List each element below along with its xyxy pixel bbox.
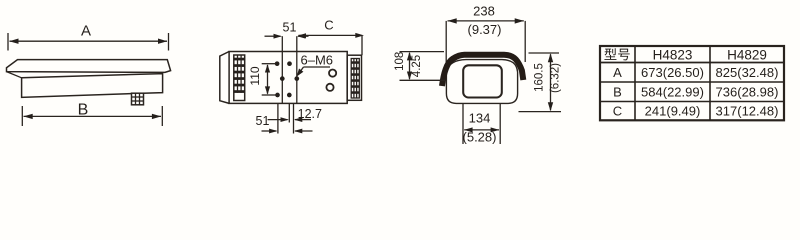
svg-text:4.25: 4.25 xyxy=(411,55,423,77)
svg-text:6–M6: 6–M6 xyxy=(301,53,334,68)
dim A line xyxy=(10,40,168,42)
dim 110 arrow up xyxy=(265,64,270,72)
lid front skirt line xyxy=(7,72,22,78)
body outline xyxy=(446,60,517,104)
dim C arrow left xyxy=(298,33,306,38)
svg-text:A: A xyxy=(81,23,91,40)
svg-text:238: 238 xyxy=(473,4,495,19)
dim 12.7 line left xyxy=(268,119,288,121)
hole circle 2 xyxy=(326,84,333,91)
dim A extension tick left xyxy=(7,33,9,51)
svg-text:B: B xyxy=(78,102,89,119)
svg-text:(6.32): (6.32) xyxy=(550,63,562,93)
dim 108 arrow up xyxy=(407,52,412,61)
dim B extension tick right xyxy=(161,106,163,126)
dim A arrow left xyxy=(9,39,18,44)
svg-text:736(28.98): 736(28.98) xyxy=(716,84,779,99)
table column line 2 xyxy=(709,46,711,120)
dim 51 bottom line right xyxy=(295,130,313,132)
svg-text:C: C xyxy=(613,103,622,118)
dim 51 top line right xyxy=(298,35,309,37)
dim 134 line xyxy=(464,129,499,131)
dim B arrow left xyxy=(23,114,32,119)
dim 12.7 arrow left-pointing xyxy=(294,117,302,122)
svg-text:C: C xyxy=(324,18,333,33)
svg-text:317(12.48): 317(12.48) xyxy=(716,103,779,118)
bottom ext line Vc xyxy=(293,103,295,133)
window opening xyxy=(463,65,502,97)
rear cap xyxy=(347,55,361,100)
svg-text:H4823: H4823 xyxy=(653,47,693,62)
svg-text:241(9.49): 241(9.49) xyxy=(645,103,701,118)
dim 108 line xyxy=(409,53,411,79)
header cell 型号 (glyph outlines) xyxy=(604,48,629,60)
svg-text:110: 110 xyxy=(248,66,262,85)
dim 134 ext right xyxy=(499,104,501,145)
dim 12.7 arrow right-pointing xyxy=(281,117,289,122)
table header bottom line xyxy=(600,62,784,64)
dim 134 arrow left xyxy=(464,127,473,132)
dim 238 ext right xyxy=(524,21,526,62)
svg-text:(5.28): (5.28) xyxy=(463,129,497,144)
dim 51 bottom arrow left-pointing xyxy=(294,129,302,134)
body rectangle xyxy=(229,52,347,104)
dim 238 arrow left xyxy=(447,18,456,23)
left vent grille xyxy=(234,55,245,101)
dim C right extension xyxy=(361,36,363,56)
dim 51 bottom arrow right-pointing xyxy=(269,129,277,134)
dim 160.5 ext bottom xyxy=(519,111,562,113)
dim 238 ext left xyxy=(445,21,447,66)
dim 238 line xyxy=(448,20,524,22)
110 ext line bottom xyxy=(262,94,277,96)
dim 51 bottom line left xyxy=(262,130,277,132)
table column line 1 xyxy=(634,46,636,120)
svg-text:A: A xyxy=(613,65,622,80)
svg-text:(9.37): (9.37) xyxy=(468,22,502,37)
dim 160.5 ext top xyxy=(529,52,560,54)
svg-text:B: B xyxy=(613,84,622,99)
svg-text:825(32.48): 825(32.48) xyxy=(716,65,779,80)
110 ext line top xyxy=(262,63,276,65)
dim B line xyxy=(24,115,162,117)
dim 238 arrow right xyxy=(515,18,524,23)
svg-text:134: 134 xyxy=(469,110,491,125)
svg-text:51: 51 xyxy=(256,114,270,128)
dim 51 top line left xyxy=(265,35,281,37)
connector block xyxy=(132,93,144,105)
sunshield band xyxy=(442,55,523,86)
dim 12.7 line right xyxy=(295,119,311,121)
centre line V1 xyxy=(281,36,283,103)
bottom ext line Vb xyxy=(288,103,290,122)
dim 108 ext bottom xyxy=(400,79,447,81)
dim 160.5 line xyxy=(550,54,552,110)
dim 51 top arrow right-pointing xyxy=(274,34,282,39)
dim B arrow right xyxy=(152,114,161,119)
dim C arrow right xyxy=(355,33,364,38)
hole circle 1 xyxy=(329,70,336,77)
dim 134 arrow right xyxy=(491,127,500,132)
svg-text:584(22.99): 584(22.99) xyxy=(641,84,704,99)
table outer border xyxy=(600,46,784,120)
hole dots 6-M6 xyxy=(275,61,280,66)
dim 160.5 arrow down xyxy=(548,102,553,111)
dim 110 arrow down xyxy=(265,86,270,94)
dim 134 ext left xyxy=(462,104,464,145)
dim 108 ext top xyxy=(400,51,445,53)
dim C line xyxy=(299,34,362,36)
svg-text:H4829: H4829 xyxy=(727,47,767,62)
table row line 2 xyxy=(600,81,784,83)
svg-text:51: 51 xyxy=(283,21,297,35)
dim 110 line xyxy=(267,65,269,94)
svg-text:108: 108 xyxy=(394,52,406,71)
left end cap xyxy=(220,52,229,104)
svg-text:673(26.50): 673(26.50) xyxy=(641,65,704,80)
right vent grille xyxy=(351,59,359,99)
dim A arrow right xyxy=(158,39,167,44)
dim B extension tick left xyxy=(21,106,23,126)
bottom ext line Va xyxy=(277,103,279,133)
table row line 3 xyxy=(600,101,784,103)
centre line V2 xyxy=(296,36,298,103)
svg-text:12.7: 12.7 xyxy=(298,107,322,121)
dim 51 top arrow left-pointing xyxy=(297,34,305,39)
dim A extension tick right xyxy=(168,33,170,51)
svg-text:160.5: 160.5 xyxy=(534,63,546,92)
dim 108 arrow down xyxy=(407,72,412,81)
housing body xyxy=(22,74,163,98)
housing lid (sunshield) xyxy=(7,60,171,73)
dim 160.5 arrow up xyxy=(548,53,553,62)
